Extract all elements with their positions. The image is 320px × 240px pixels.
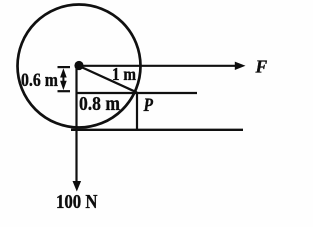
horizontal line through P	[77, 92, 198, 94]
force line F	[80, 65, 237, 67]
pulley circle	[18, 5, 141, 128]
ground line	[71, 129, 243, 131]
svg-text:100 N: 100 N	[56, 191, 98, 213]
vertical line below P	[136, 93, 138, 131]
dimension 0.6 m bottom bar	[58, 90, 71, 92]
dimension 0.6 m top bar	[58, 66, 71, 68]
svg-text:0.6 m: 0.6 m	[21, 70, 58, 91]
dimension 0.6 m shaft	[62, 72, 64, 87]
svg-text:F: F	[255, 57, 268, 77]
weight line 100 N	[75, 68, 77, 182]
arrowhead F	[235, 62, 246, 70]
center dot	[74, 61, 83, 70]
svg-text:0.8 m: 0.8 m	[79, 93, 120, 115]
svg-text:P: P	[143, 96, 154, 116]
dimension 0.6 m up arrowhead	[60, 68, 67, 77]
svg-text:1 m: 1 m	[112, 64, 136, 84]
arrowhead 100 N	[73, 181, 82, 192]
radius line to P	[79, 66, 137, 93]
dimension 0.6 m down arrowhead	[60, 81, 67, 90]
